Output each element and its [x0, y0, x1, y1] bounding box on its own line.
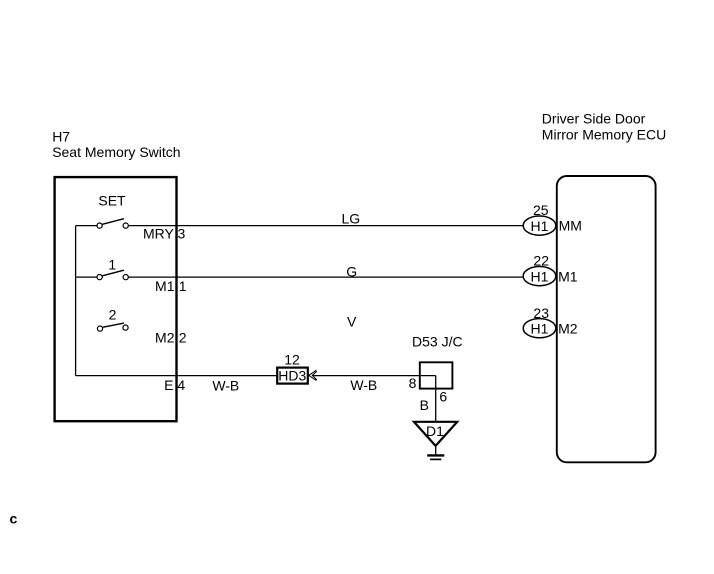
svg-text:MRY: MRY: [143, 226, 175, 242]
svg-text:2: 2: [109, 307, 117, 323]
svg-text:25: 25: [533, 202, 549, 218]
svg-text:M2: M2: [558, 321, 578, 337]
svg-text:H1: H1: [531, 218, 549, 234]
svg-text:V: V: [347, 314, 357, 330]
svg-text:M2: M2: [155, 329, 175, 345]
svg-text:W-B: W-B: [212, 378, 239, 394]
svg-text:c: c: [10, 511, 18, 527]
svg-text:3: 3: [178, 226, 186, 242]
svg-text:W-B: W-B: [350, 377, 377, 393]
svg-text:SET: SET: [98, 192, 126, 208]
svg-text:H1: H1: [531, 268, 549, 284]
svg-text:4: 4: [177, 377, 185, 393]
svg-text:G: G: [346, 263, 357, 279]
svg-text:Mirror Memory ECU: Mirror Memory ECU: [542, 127, 666, 143]
svg-text:M1: M1: [155, 278, 175, 294]
svg-text:D53 J/C: D53 J/C: [412, 333, 463, 349]
svg-text:8: 8: [409, 375, 417, 391]
svg-text:B: B: [420, 397, 429, 413]
svg-text:H7: H7: [52, 129, 70, 145]
svg-text:22: 22: [533, 253, 549, 269]
svg-text:D1: D1: [426, 423, 444, 439]
svg-text:Driver Side Door: Driver Side Door: [542, 111, 646, 127]
svg-text:M1: M1: [558, 269, 578, 285]
svg-text:12: 12: [284, 352, 300, 368]
svg-text:LG: LG: [341, 211, 360, 227]
svg-text:1: 1: [108, 256, 116, 272]
svg-text:6: 6: [439, 389, 447, 405]
svg-text:2: 2: [179, 329, 187, 345]
svg-text:E: E: [164, 377, 173, 393]
svg-text:MM: MM: [559, 218, 582, 234]
svg-text:Seat Memory Switch: Seat Memory Switch: [52, 144, 180, 160]
svg-text:H1: H1: [531, 321, 549, 337]
svg-text:1: 1: [179, 278, 187, 294]
svg-text:23: 23: [533, 305, 549, 321]
svg-text:HD3: HD3: [278, 368, 306, 384]
